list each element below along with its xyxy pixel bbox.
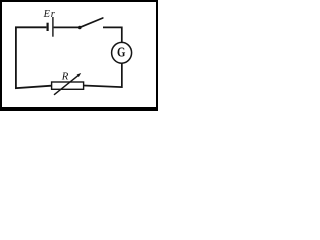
wire left loop: top-left segment, left side, bottom-left segment (16, 27, 52, 88)
wire galvanometer down to bottom-right corner and left to rheostat (84, 63, 122, 87)
svg-text:G: G (117, 45, 125, 60)
wire battery to switch (54, 26, 79, 28)
galvanometer G circle (112, 42, 132, 63)
rheostat arrow shaft (54, 75, 79, 95)
rheostat arrow head (77, 73, 82, 77)
rheostat R box (52, 82, 84, 89)
svg-text:E: E (43, 9, 51, 20)
wire switch contact to top-right corner and down to galvanometer (103, 27, 122, 42)
battery E,r positive plate (long thin) (52, 17, 54, 37)
switch blade (open) (80, 18, 103, 27)
switch pivot dot (78, 26, 82, 30)
battery E,r negative plate (short thick) (46, 23, 48, 31)
svg-text:R: R (61, 70, 69, 82)
